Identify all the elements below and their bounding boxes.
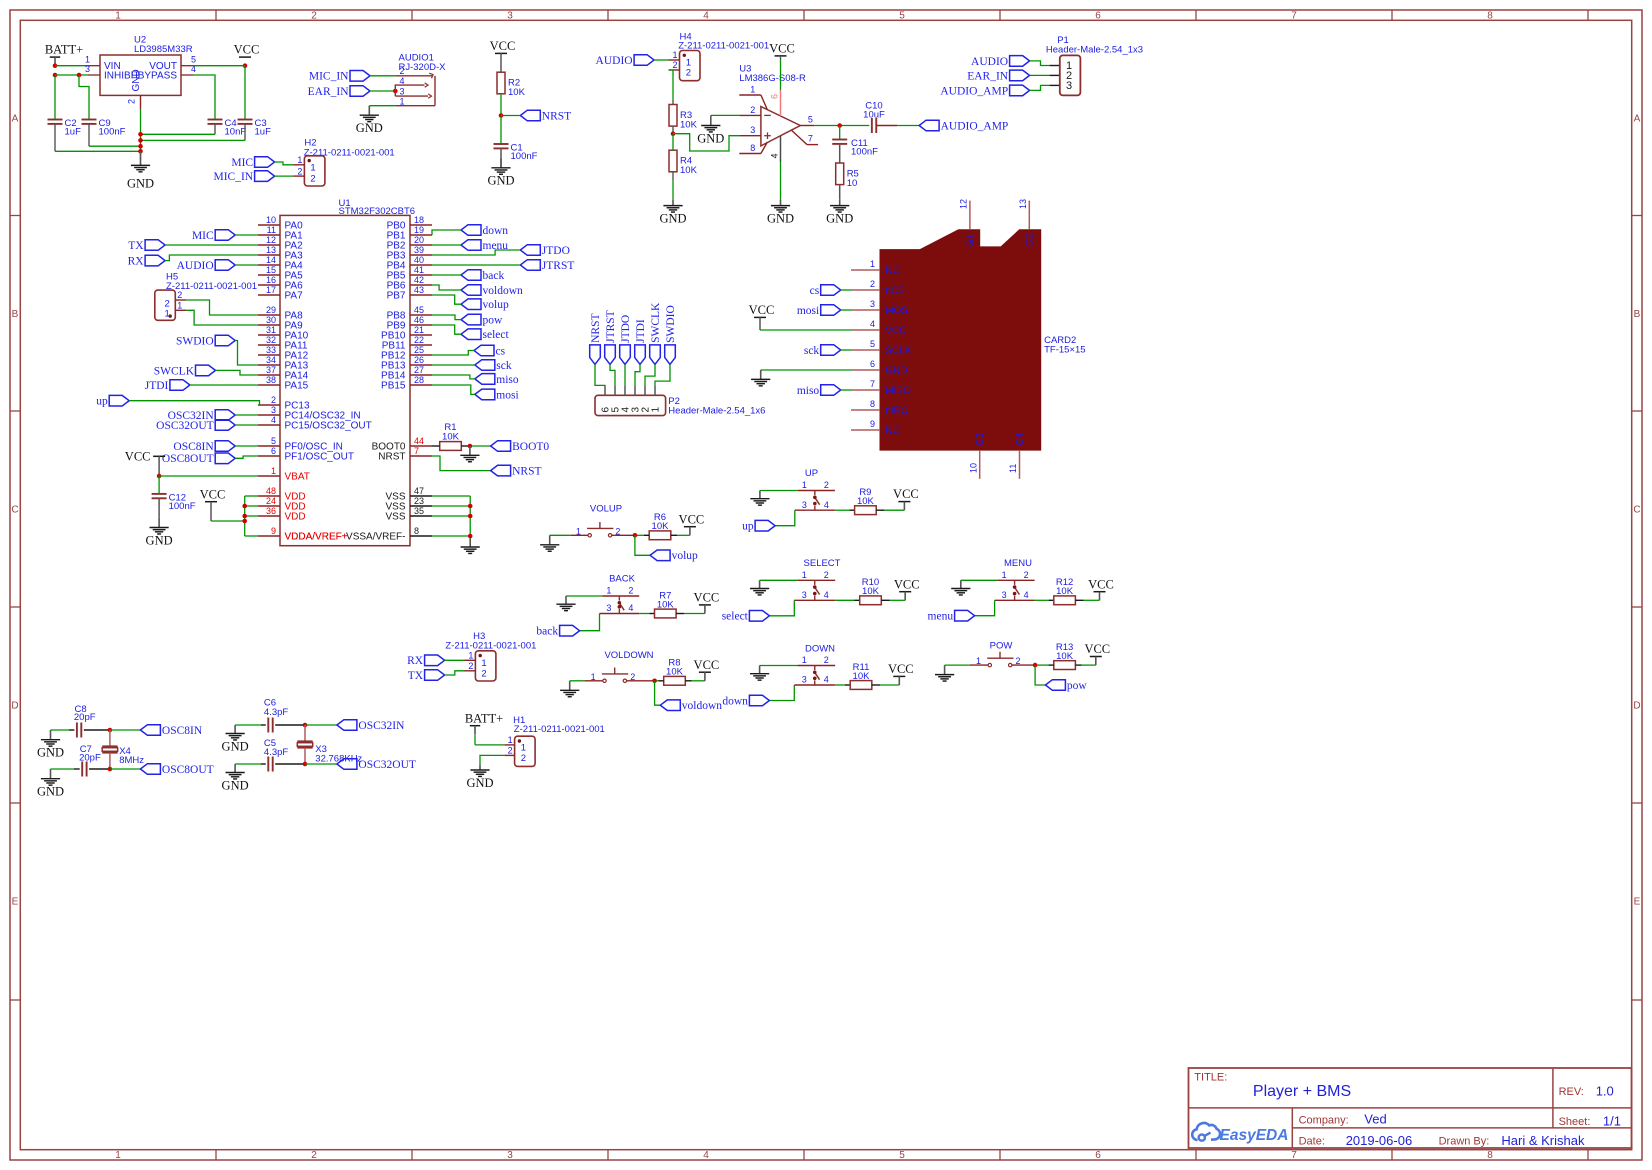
svg-text:GND: GND bbox=[37, 785, 64, 799]
svg-text:Drawn By:: Drawn By: bbox=[1439, 1136, 1490, 1148]
svg-text:POW: POW bbox=[990, 640, 1013, 651]
svg-text:11: 11 bbox=[267, 225, 276, 235]
svg-text:NRST: NRST bbox=[512, 466, 541, 478]
wire JTDI to PA15 bbox=[190, 384, 258, 386]
wire BATT+ to U2 INHIBIT bbox=[55, 73, 100, 78]
svg-text:3: 3 bbox=[870, 299, 875, 309]
svg-text:SELECT: SELECT bbox=[804, 558, 841, 569]
net flag OSC32IN at crystal bbox=[337, 720, 405, 732]
svg-text:cs: cs bbox=[496, 345, 506, 357]
wire PB5 to back bbox=[432, 274, 461, 276]
wire U2 BYPASS to C4 bbox=[181, 75, 215, 120]
header H1 Z-211-0211-0021-001 bbox=[505, 715, 605, 766]
svg-text:GND: GND bbox=[356, 121, 383, 135]
svg-text:up: up bbox=[96, 396, 108, 408]
svg-text:13: 13 bbox=[266, 245, 276, 255]
ground GND at op-amp - input bbox=[697, 115, 724, 145]
svg-text:10K: 10K bbox=[853, 671, 871, 682]
svg-text:1/1: 1/1 bbox=[1603, 1113, 1621, 1128]
junction dots ground node bbox=[138, 132, 143, 154]
svg-text:back: back bbox=[483, 270, 505, 282]
svg-text:42: 42 bbox=[414, 275, 424, 285]
net flag AUDIO_AMP at P1 bbox=[940, 85, 1029, 97]
wire menu flag to MENU pin3 bbox=[975, 600, 995, 615]
svg-text:Z-211-0211-0021-001: Z-211-0211-0021-001 bbox=[445, 641, 536, 652]
pushbutton VOLUP bbox=[590, 503, 622, 514]
SD card pin 13 G2 bbox=[1018, 199, 1036, 247]
svg-text:1: 1 bbox=[165, 309, 170, 320]
svg-text:12: 12 bbox=[266, 235, 276, 245]
svg-text:8: 8 bbox=[870, 399, 875, 409]
svg-text:PC15/OSC32_OUT: PC15/OSC32_OUT bbox=[285, 421, 372, 432]
svg-text:22: 22 bbox=[414, 335, 424, 345]
wire ground to C7 bbox=[51, 768, 80, 770]
svg-text:8: 8 bbox=[414, 526, 419, 536]
capacitor C4 10nF bbox=[208, 118, 247, 137]
net flag AUDIO at U1 bbox=[177, 260, 236, 272]
svg-text:37: 37 bbox=[266, 365, 276, 375]
svg-text:1: 1 bbox=[870, 259, 875, 269]
svg-text:NC: NC bbox=[885, 426, 899, 437]
svg-text:RX: RX bbox=[407, 655, 424, 667]
svg-text:NRST: NRST bbox=[542, 110, 571, 122]
svg-text:3: 3 bbox=[750, 125, 755, 135]
ground GND at UP bbox=[750, 491, 769, 506]
svg-text:4.3pF: 4.3pF bbox=[264, 707, 288, 718]
svg-text:NRST: NRST bbox=[590, 313, 602, 342]
net flag RX at H3 bbox=[407, 655, 444, 667]
svg-text:4: 4 bbox=[400, 76, 405, 86]
svg-text:Header-Male-2.54_1x3: Header-Male-2.54_1x3 bbox=[1046, 45, 1143, 56]
svg-text:41: 41 bbox=[414, 265, 424, 275]
svg-text:2: 2 bbox=[824, 655, 829, 665]
svg-text:2: 2 bbox=[508, 746, 513, 756]
wire VOLDOWN pin2 to node bbox=[627, 679, 657, 684]
svg-text:1: 1 bbox=[310, 162, 315, 173]
svg-text:5: 5 bbox=[808, 114, 813, 124]
svg-text:10K: 10K bbox=[666, 667, 684, 678]
wire NRST node to C1 bbox=[500, 116, 502, 145]
svg-text:4: 4 bbox=[824, 590, 829, 600]
svg-text:17: 17 bbox=[266, 285, 276, 295]
svg-text:39: 39 bbox=[414, 245, 424, 255]
svg-text:TF-15×15: TF-15×15 bbox=[1044, 344, 1085, 355]
svg-text:GND: GND bbox=[127, 177, 154, 191]
svg-text:2: 2 bbox=[672, 60, 677, 70]
svg-text:VCC: VCC bbox=[894, 577, 920, 591]
svg-text:10: 10 bbox=[266, 215, 276, 225]
wire EAR_IN to P1 pin2 bbox=[1030, 74, 1060, 76]
power flag BATT+ at H1 bbox=[465, 711, 503, 734]
wire JTDI to P2 pin3 bbox=[635, 364, 640, 385]
svg-text:GND: GND bbox=[37, 746, 64, 760]
svg-text:1: 1 bbox=[297, 155, 302, 165]
wire AUDIO to P1 pin1 bbox=[1030, 61, 1060, 66]
net flag NRST at U1 bbox=[491, 465, 542, 477]
header H5 Z-211-0211-0021-001 bbox=[155, 271, 257, 320]
svg-text:2: 2 bbox=[177, 290, 182, 300]
svg-text:VSSA/VREF-: VSSA/VREF- bbox=[346, 532, 405, 543]
svg-text:EAR_IN: EAR_IN bbox=[308, 86, 350, 98]
svg-text:G1: G1 bbox=[965, 233, 976, 247]
svg-text:38: 38 bbox=[266, 375, 276, 385]
wire POW pin2 to node bbox=[1012, 663, 1037, 668]
svg-text:5: 5 bbox=[899, 1150, 905, 1161]
svg-text:BATT+: BATT+ bbox=[465, 711, 503, 725]
ground GND at POW bbox=[935, 665, 954, 681]
wire C11 to R5 bbox=[839, 144, 841, 163]
svg-text:SWDIO: SWDIO bbox=[665, 305, 677, 343]
wire MIC_IN to H2 pin2 bbox=[275, 175, 294, 177]
wire PB14 to miso bbox=[432, 375, 475, 379]
resistor R3 10K bbox=[669, 105, 698, 131]
crystal X4 8MHz bbox=[102, 730, 144, 769]
wire C7 to OSC8OUT node bbox=[89, 767, 140, 772]
svg-text:Company:: Company: bbox=[1299, 1114, 1349, 1126]
wire VBAT node to C12 bbox=[158, 476, 160, 494]
svg-text:VDDA/VREF+: VDDA/VREF+ bbox=[285, 532, 348, 543]
svg-text:3: 3 bbox=[1066, 80, 1072, 92]
svg-text:2: 2 bbox=[750, 105, 755, 115]
EasyEDA logo bbox=[1192, 1123, 1288, 1144]
svg-text:PB7: PB7 bbox=[387, 291, 406, 302]
wire OSC32OUT to PC15 bbox=[235, 424, 258, 426]
svg-text:D: D bbox=[11, 701, 18, 712]
capacitor C12 100nF bbox=[152, 493, 196, 512]
net flag SWCLK at P2 bbox=[650, 302, 662, 364]
wire PB12 to cs bbox=[432, 351, 474, 356]
svg-text:OSC32OUT: OSC32OUT bbox=[358, 759, 416, 771]
svg-text:1: 1 bbox=[115, 1150, 121, 1161]
svg-text:B: B bbox=[12, 309, 19, 320]
pushbutton VOLDOWN bbox=[604, 650, 653, 661]
wire RX to H3 pin1 bbox=[445, 659, 465, 661]
svg-text:3: 3 bbox=[1002, 590, 1007, 600]
svg-text:30: 30 bbox=[266, 315, 276, 325]
wire C2 to ground node bbox=[55, 124, 141, 151]
svg-text:2019-06-06: 2019-06-06 bbox=[1346, 1133, 1413, 1148]
wire SELECT pin4 to R10 bbox=[835, 599, 860, 601]
wire ground to C6 bbox=[235, 724, 266, 726]
power flag VCC at op-amp bbox=[769, 42, 795, 56]
wire op-amp - input to ground bbox=[711, 114, 740, 116]
svg-text:REV:: REV: bbox=[1559, 1086, 1584, 1098]
svg-text:mosi: mosi bbox=[496, 389, 518, 401]
svg-text:36: 36 bbox=[266, 506, 276, 516]
svg-text:4: 4 bbox=[770, 153, 780, 158]
svg-text:1: 1 bbox=[606, 586, 611, 596]
microcontroller U1 STM32F302CBT6 bbox=[258, 198, 432, 545]
wire C10 to AUDIO_AMP flag bbox=[877, 125, 920, 127]
resistor R2 10K bbox=[497, 72, 526, 98]
power flag VCC above R2 bbox=[490, 39, 516, 53]
ground GND at C7 bbox=[37, 769, 64, 799]
wire AUDIO_AMP to P1 pin3 bbox=[1030, 85, 1060, 90]
net flag mosi at U1 bbox=[475, 389, 519, 401]
net flag miso at card bbox=[797, 385, 841, 397]
wire ground to DOWN pin1 bbox=[760, 665, 798, 667]
svg-text:VCC: VCC bbox=[1088, 577, 1114, 591]
net flag mosi at card bbox=[797, 305, 841, 317]
svg-text:B: B bbox=[1634, 309, 1641, 320]
svg-text:nIRQ: nIRQ bbox=[885, 406, 909, 417]
net flag volup bbox=[650, 550, 698, 562]
svg-text:UP: UP bbox=[805, 468, 818, 479]
svg-text:OSC8IN: OSC8IN bbox=[173, 441, 214, 453]
svg-text:RJ-320D-X: RJ-320D-X bbox=[399, 62, 447, 73]
capacitor C8 20pF bbox=[74, 704, 96, 738]
svg-text:23: 23 bbox=[414, 496, 424, 506]
resistor R8 10K bbox=[664, 658, 686, 686]
wire AUDIO to PA4 bbox=[235, 264, 258, 266]
svg-text:4: 4 bbox=[870, 319, 875, 329]
net flag MIC_IN at jack bbox=[309, 71, 370, 83]
svg-text:VOLUP: VOLUP bbox=[590, 503, 622, 514]
svg-text:MIC: MIC bbox=[192, 230, 214, 242]
power flag VCC at DOWN bbox=[888, 662, 914, 685]
net flag down bbox=[722, 695, 769, 707]
svg-text:volup: volup bbox=[483, 299, 509, 311]
svg-text:GND: GND bbox=[659, 211, 686, 225]
svg-text:35: 35 bbox=[414, 506, 424, 516]
resistor R6 10K bbox=[649, 512, 671, 540]
wire PB3 to JTDO bbox=[432, 250, 520, 255]
svg-text:4: 4 bbox=[824, 500, 829, 510]
svg-text:Z-211-0211-0021-001: Z-211-0211-0021-001 bbox=[514, 724, 605, 735]
svg-text:voldown: voldown bbox=[483, 285, 524, 297]
svg-text:2: 2 bbox=[1024, 570, 1029, 580]
wire node to R13 bbox=[1037, 664, 1054, 666]
svg-text:20: 20 bbox=[414, 235, 424, 245]
header H3 Z-211-0211-0021-001 bbox=[445, 631, 536, 651]
svg-text:1: 1 bbox=[271, 466, 276, 476]
svg-text:20pF: 20pF bbox=[74, 712, 96, 723]
wire divider node to R4 bbox=[672, 134, 674, 151]
wire R3 to divider node bbox=[671, 126, 676, 136]
resistor R12 10K bbox=[1054, 577, 1076, 605]
svg-text:5: 5 bbox=[899, 10, 905, 21]
net flag AUDIO at P1 bbox=[971, 56, 1030, 68]
wire NRST to P2 pin6 bbox=[595, 364, 605, 385]
wire jack pin1 to ground bbox=[369, 105, 395, 107]
wire node to pow flag bbox=[1035, 665, 1045, 685]
wire BATT+ to H1 pin1 bbox=[475, 734, 515, 745]
svg-text:GND: GND bbox=[826, 211, 853, 225]
wire C5 to OSC32OUT node bbox=[275, 762, 337, 767]
pushbutton VOLUP pin labels bbox=[576, 526, 621, 536]
svg-text:44: 44 bbox=[414, 436, 424, 446]
svg-text:2: 2 bbox=[870, 279, 875, 289]
crystal X3 32.768KHz bbox=[297, 725, 362, 764]
svg-text:10K: 10K bbox=[857, 496, 875, 507]
wire select flag to SELECT pin3 bbox=[769, 600, 794, 616]
svg-text:10K: 10K bbox=[508, 87, 526, 98]
ground GND below R4 bbox=[659, 200, 686, 225]
svg-text:sck: sck bbox=[804, 345, 820, 357]
svg-text:down: down bbox=[722, 695, 748, 707]
svg-text:46: 46 bbox=[414, 315, 424, 325]
wire ground to POW pin1 bbox=[945, 664, 988, 666]
svg-text:8MHz: 8MHz bbox=[119, 755, 144, 766]
svg-text:16: 16 bbox=[266, 275, 276, 285]
svg-text:1: 1 bbox=[468, 651, 473, 661]
svg-text:15: 15 bbox=[266, 265, 276, 275]
svg-text:1: 1 bbox=[177, 300, 182, 310]
svg-text:5: 5 bbox=[870, 339, 875, 349]
pushbutton MENU bbox=[995, 558, 1035, 600]
wire SWDIO to PA13 bbox=[235, 341, 258, 366]
svg-text:2: 2 bbox=[271, 395, 276, 405]
net flag pow at U1 bbox=[461, 314, 503, 326]
wire RX to PA3 bbox=[165, 255, 258, 261]
header P1 Header-Male-2.54_1x3 bbox=[1046, 35, 1143, 95]
net flag NRST at P2 bbox=[590, 313, 602, 364]
capacitor C9 100nF bbox=[82, 118, 126, 137]
ground GND at C6 bbox=[222, 725, 249, 753]
svg-text:3: 3 bbox=[802, 500, 807, 510]
capacitor C1 100nF bbox=[494, 143, 538, 162]
svg-text:STM32F302CBT6: STM32F302CBT6 bbox=[339, 206, 416, 217]
svg-text:48: 48 bbox=[266, 486, 276, 496]
ground GND at SELECT bbox=[750, 580, 769, 595]
wire PB13 to sck bbox=[432, 364, 475, 366]
net flag MIC_IN at H2 bbox=[213, 171, 274, 183]
svg-text:33: 33 bbox=[266, 345, 276, 355]
svg-text:OSC8OUT: OSC8OUT bbox=[162, 764, 214, 776]
svg-text:GND: GND bbox=[767, 211, 794, 225]
wire PB2 to menu bbox=[432, 244, 461, 246]
svg-text:down: down bbox=[483, 225, 509, 237]
wire MIC_IN to jack pin2 bbox=[370, 75, 395, 77]
svg-text:32: 32 bbox=[266, 335, 276, 345]
wire R7 to VCC bbox=[676, 613, 705, 615]
power flag VCC at U2 output bbox=[234, 43, 260, 57]
svg-text:2: 2 bbox=[468, 661, 473, 671]
svg-text:A: A bbox=[12, 114, 19, 125]
svg-text:VCC: VCC bbox=[893, 487, 919, 501]
svg-text:mosi: mosi bbox=[797, 305, 819, 317]
svg-text:10K: 10K bbox=[680, 165, 698, 176]
power flag VCC at UP bbox=[893, 487, 919, 510]
svg-text:PA15: PA15 bbox=[285, 381, 309, 392]
svg-text:MENU: MENU bbox=[1004, 558, 1032, 569]
power flag VCC at MENU bbox=[1088, 577, 1114, 600]
ground GND below VSS bbox=[461, 539, 480, 554]
ground GND below U2 bbox=[127, 151, 154, 190]
svg-text:Ved: Ved bbox=[1364, 1112, 1386, 1127]
power flag VCC at VOLUP bbox=[679, 512, 705, 535]
wire H5 pin2 to PA8 bbox=[186, 300, 258, 315]
regulator U2 LD3985M33R bbox=[85, 35, 196, 109]
power flag VCC at VBAT bbox=[125, 449, 165, 463]
wire C12 to ground bbox=[158, 498, 160, 517]
wire SWCLK to P2 pin2 bbox=[645, 364, 655, 385]
net flag JTDO at U1 bbox=[520, 245, 570, 257]
svg-text:2: 2 bbox=[824, 480, 829, 490]
wire H5 pin1 to PA9 bbox=[186, 310, 258, 325]
svg-text:VSS: VSS bbox=[385, 512, 405, 523]
wire INHIBIT node to C9 bbox=[79, 75, 89, 120]
svg-text:3: 3 bbox=[802, 675, 807, 685]
wire R4 to ground bbox=[672, 172, 674, 200]
wire VCC down to C3 bbox=[244, 66, 246, 120]
svg-text:10K: 10K bbox=[1056, 586, 1074, 597]
svg-text:MISO: MISO bbox=[885, 386, 911, 397]
wire R2 to NRST node bbox=[499, 94, 504, 118]
svg-text:1uF: 1uF bbox=[255, 127, 272, 138]
svg-text:VCC: VCC bbox=[694, 591, 720, 605]
svg-text:3: 3 bbox=[606, 603, 611, 613]
svg-text:OSC8IN: OSC8IN bbox=[162, 725, 203, 737]
wire SWDIO to P2 pin1 bbox=[655, 364, 670, 385]
svg-text:AUDIO: AUDIO bbox=[596, 55, 633, 67]
ground GND at DOWN bbox=[750, 666, 769, 681]
net flag cs at U1 bbox=[474, 345, 506, 357]
capacitor C2 1uF bbox=[48, 118, 82, 137]
net flag voldown bbox=[660, 700, 722, 712]
svg-text:OSC8OUT: OSC8OUT bbox=[162, 453, 214, 465]
svg-text:2: 2 bbox=[521, 753, 526, 764]
wire VCC to R2 bbox=[500, 53, 502, 72]
svg-text:AUDIO: AUDIO bbox=[971, 56, 1008, 68]
svg-text:20pF: 20pF bbox=[79, 752, 101, 763]
wire card pin6 to ground bbox=[761, 369, 851, 371]
svg-text:3: 3 bbox=[400, 86, 405, 96]
svg-text:EAR_IN: EAR_IN bbox=[967, 70, 1009, 82]
ground GND at card pin6 bbox=[751, 370, 770, 386]
svg-text:TX: TX bbox=[128, 240, 144, 252]
svg-text:7: 7 bbox=[1291, 10, 1297, 21]
svg-text:JTDI: JTDI bbox=[635, 319, 647, 343]
svg-text:1: 1 bbox=[1002, 570, 1007, 580]
svg-text:10K: 10K bbox=[862, 586, 880, 597]
svg-text:1: 1 bbox=[802, 655, 807, 665]
svg-text:GND: GND bbox=[222, 739, 249, 753]
svg-text:select: select bbox=[483, 329, 510, 341]
svg-text:7: 7 bbox=[870, 379, 875, 389]
wire PB8 to pow bbox=[432, 315, 461, 320]
svg-text:27: 27 bbox=[414, 365, 424, 375]
svg-text:2: 2 bbox=[824, 570, 829, 580]
svg-text:MOSI: MOSI bbox=[885, 306, 911, 317]
pushbutton BACK bbox=[600, 573, 640, 613]
svg-text:1: 1 bbox=[802, 480, 807, 490]
net flag OSC8IN at crystal bbox=[140, 725, 202, 737]
svg-text:7: 7 bbox=[1291, 1150, 1297, 1161]
wire VSS pins to ground rail bbox=[432, 496, 473, 547]
svg-text:DOWN: DOWN bbox=[805, 643, 835, 654]
svg-text:MIC: MIC bbox=[231, 157, 253, 169]
net flag TX at H3 bbox=[408, 670, 445, 682]
wire VCC to op-amp pin6 bbox=[780, 56, 782, 90]
svg-text:29: 29 bbox=[266, 305, 276, 315]
wire R12 to VCC bbox=[1075, 599, 1099, 601]
capacitor C7 20pF bbox=[79, 744, 101, 777]
svg-text:VBAT: VBAT bbox=[285, 472, 310, 483]
net flag AUDIO at H4 bbox=[596, 55, 655, 67]
svg-text:GND: GND bbox=[222, 778, 249, 792]
svg-text:GND: GND bbox=[487, 174, 514, 188]
power flag VCC at BACK bbox=[694, 591, 720, 614]
svg-text:PF1/OSC_OUT: PF1/OSC_OUT bbox=[285, 452, 354, 463]
svg-text:AUDIO_AMP: AUDIO_AMP bbox=[940, 85, 1008, 97]
svg-text:pow: pow bbox=[483, 315, 504, 327]
svg-text:VCC: VCC bbox=[694, 658, 720, 672]
svg-text:100nF: 100nF bbox=[851, 147, 878, 158]
svg-text:100nF: 100nF bbox=[169, 501, 196, 512]
svg-text:VDD: VDD bbox=[285, 512, 306, 523]
svg-text:10K: 10K bbox=[442, 431, 460, 442]
